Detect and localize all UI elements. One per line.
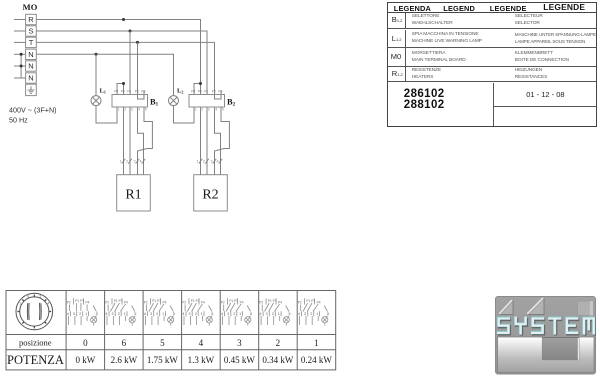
B2 bottom pin 2 stub [200, 107, 202, 110]
wire stub left of N2 [14, 65, 26, 67]
svg-text:P4: P4 [114, 89, 118, 93]
svg-text:3: 3 [237, 338, 242, 348]
svg-text:2: 2 [310, 312, 312, 316]
svg-text:5: 5 [222, 108, 224, 112]
node N2-jumper junction [20, 65, 23, 68]
position cell 3 contact labels [182, 298, 205, 304]
wire R jog to B2 pin1 [194, 84, 201, 95]
svg-text:P0: P0 [198, 89, 202, 93]
svg-text:posizione: posizione [19, 338, 52, 348]
position cell 1 terminal numbers [105, 311, 136, 316]
svg-text:2: 2 [195, 312, 197, 316]
B2 bottom pin 4 stub [214, 107, 216, 110]
svg-text:P1 P3: P1 P3 [152, 299, 161, 303]
svg-text:5: 5 [327, 312, 329, 316]
svg-text:P2: P2 [212, 89, 216, 93]
node R jog junction B2 [199, 82, 202, 85]
svg-text:2: 2 [201, 108, 203, 112]
wire R drop to B1 [123, 84, 125, 95]
terminal MO cell N3 [26, 73, 37, 83]
svg-text:1: 1 [19, 302, 21, 306]
B1 bottom pin 3 stub [129, 107, 131, 110]
logo square block [578, 301, 594, 316]
position cell 0 contact strokes [70, 303, 97, 312]
wire stub left of N1 [14, 53, 26, 55]
node T-B1 tap [136, 41, 139, 44]
wire tag 2 above R2 [203, 159, 209, 164]
terminal MO cell N2 [26, 61, 37, 71]
svg-text:3: 3 [112, 312, 114, 316]
wire tag 3 above R1 [134, 159, 140, 164]
svg-text:P1 P3: P1 P3 [114, 299, 123, 303]
B1 bottom pin 2 stub [123, 107, 125, 110]
svg-text:2: 2 [203, 159, 205, 163]
node R-B1 tap [122, 18, 125, 21]
wire stub left of R [14, 19, 26, 21]
svg-text:2: 2 [124, 108, 126, 112]
position cell 5 contact strokes [262, 303, 289, 312]
svg-text:R2: R2 [202, 188, 218, 203]
wire B1 pin5 to R1 [138, 110, 153, 175]
heater R1 [117, 175, 151, 211]
svg-text:4: 4 [199, 338, 204, 348]
legend row B1,2 selector [388, 13, 596, 30]
wire N drop to lamp L1 [95, 54, 97, 95]
terminal MO cell S [26, 26, 37, 36]
wire tag 2 above R1 [126, 159, 132, 164]
node S-B1 tap [129, 30, 132, 33]
B2 bottom pin 1 stub [193, 107, 195, 110]
position cell 5 lamp icon [283, 316, 289, 326]
svg-text:1: 1 [118, 108, 120, 112]
svg-text:2: 2 [276, 338, 281, 348]
wire S bus [36, 31, 207, 95]
svg-text:P2: P2 [67, 300, 71, 304]
wire B2 pin5 to R2 [215, 110, 230, 175]
svg-text:3: 3 [211, 159, 213, 163]
svg-text:4: 4 [144, 312, 146, 316]
B2 bottom pin 5 stub [220, 107, 222, 110]
svg-text:5: 5 [96, 312, 98, 316]
wire R drop to B2 [200, 84, 202, 95]
position cell 2 contact labels [144, 298, 167, 304]
position cell 0 terminal numbers [67, 311, 98, 316]
svg-text:N: N [28, 74, 33, 83]
position cell 3 terminal numbers [182, 311, 213, 316]
SYSTEM4 watermark logo [495, 296, 596, 375]
svg-text:3: 3 [304, 312, 306, 316]
svg-text:1.3 kW: 1.3 kW [188, 355, 215, 365]
logo SYSTEM lettering [497, 316, 595, 335]
terminal MO ground cell [26, 84, 37, 95]
logo triangle 2 [527, 298, 544, 315]
svg-text:1: 1 [197, 159, 199, 163]
wire B2 pin4 to R2 [215, 110, 221, 175]
selector knob symbol [16, 293, 53, 330]
svg-text:N: N [28, 62, 33, 71]
svg-text:1: 1 [314, 338, 319, 348]
svg-text:P4: P4 [86, 300, 90, 304]
svg-text:P2: P2 [135, 89, 139, 93]
wire tag 1 above R1 [120, 159, 126, 164]
position cell 0 lamp icon [91, 316, 97, 326]
position cell 5 contact labels [259, 298, 282, 304]
svg-text:4: 4 [260, 312, 262, 316]
svg-text:4: 4 [298, 312, 300, 316]
svg-text:P4: P4 [278, 300, 282, 304]
position table frame [6, 291, 336, 370]
svg-text:P4: P4 [201, 300, 205, 304]
svg-text:3: 3 [189, 312, 191, 316]
wire T drop to B1 [137, 42, 139, 94]
node R jog junction B1 [122, 82, 125, 85]
node N1-jumper junction [20, 53, 23, 56]
svg-text:3: 3 [227, 312, 229, 316]
svg-text:P1 P3: P1 P3 [306, 299, 315, 303]
position cell 0 contact labels [67, 298, 90, 304]
position cell 0 stems [69, 316, 88, 325]
svg-text:2.6 kW: 2.6 kW [111, 355, 138, 365]
svg-text:P1 P3: P1 P3 [75, 299, 84, 303]
position table column dividers [66, 291, 297, 370]
wire B2 pin2 to R2 [200, 110, 202, 175]
svg-text:P4: P4 [191, 89, 195, 93]
lamp L1 [91, 96, 101, 106]
svg-text:1: 1 [201, 312, 203, 316]
svg-text:5: 5 [173, 312, 175, 316]
svg-text:1: 1 [195, 108, 197, 112]
position cell 4 stems [223, 316, 242, 325]
position cell 5 terminal numbers [260, 311, 291, 316]
svg-text:3: 3 [266, 312, 268, 316]
position cell 2 lamp icon [168, 316, 174, 326]
svg-text:R: R [28, 15, 34, 24]
position cell 4 lamp icon [245, 316, 251, 326]
wire S drop to B1 [129, 31, 131, 95]
wire T drop to B2 [0, 0, 1, 1]
position cell 2 stems [146, 316, 165, 325]
wire tag 4 above R1 [140, 159, 146, 164]
legend header [388, 3, 596, 13]
svg-text:P1: P1 [127, 89, 131, 93]
svg-text:P1 P3: P1 P3 [268, 299, 277, 303]
B1 bottom pin 1 stub [116, 107, 118, 110]
svg-text:4: 4 [140, 159, 142, 163]
logo triangle 1 [499, 300, 513, 315]
node N-L1 tap [95, 53, 98, 56]
svg-text:1: 1 [120, 159, 122, 163]
selector switch B2 body [189, 95, 225, 108]
svg-text:1: 1 [85, 312, 87, 316]
wire R bus [36, 20, 200, 84]
svg-text:P2: P2 [259, 300, 263, 304]
legend part numbers cell [388, 83, 493, 126]
svg-text:2: 2 [156, 312, 158, 316]
svg-text:S: S [28, 27, 33, 36]
position cell 4 contact labels [221, 298, 244, 304]
position cell 2 contact strokes [147, 303, 174, 312]
svg-text:R1: R1 [125, 188, 141, 203]
position cell 3 stems [184, 316, 203, 325]
B2 top pin stubs [194, 91, 221, 95]
svg-text:P4: P4 [163, 300, 167, 304]
svg-text:0.24 kW: 0.24 kW [301, 355, 333, 365]
position cell 4 contact strokes [224, 303, 251, 312]
B1 bottom pin 4 stub [137, 107, 139, 110]
wire tag 3 above R2 [211, 159, 217, 164]
svg-text:P3: P3 [141, 89, 145, 93]
wire stub left of T [14, 41, 26, 43]
heater R2 [194, 175, 228, 211]
position cell 3 lamp icon [206, 316, 212, 326]
position cell 1 contact labels [105, 298, 128, 304]
svg-text:5: 5 [160, 338, 165, 348]
svg-text:L1: L1 [100, 88, 106, 95]
svg-text:1.75 kW: 1.75 kW [147, 355, 179, 365]
wire R jog to B1 pin1 [117, 84, 124, 95]
svg-text:6: 6 [27, 295, 29, 299]
svg-text:4: 4 [215, 108, 217, 112]
svg-text:MO: MO [23, 2, 38, 12]
svg-text:P4: P4 [124, 300, 128, 304]
wire N jumper vertical [20, 54, 22, 78]
B1 bottom pin 5 stub [143, 107, 145, 110]
svg-text:5: 5 [40, 295, 42, 299]
svg-text:P1 P3: P1 P3 [229, 299, 238, 303]
svg-text:P2: P2 [105, 300, 109, 304]
lamp L2 [169, 96, 179, 106]
svg-text:4: 4 [221, 312, 223, 316]
terminal MO cell T [26, 37, 37, 47]
wire tag 4 above R2 [217, 159, 223, 164]
position cell 1 lamp icon [129, 316, 135, 326]
svg-text:0 kW: 0 kW [76, 355, 96, 365]
logo background plate [496, 297, 596, 375]
svg-text:P2: P2 [144, 300, 148, 304]
svg-text:2: 2 [126, 159, 128, 163]
wire tag 1 above R2 [197, 159, 203, 164]
svg-text:P2: P2 [298, 300, 302, 304]
wire stub left of S [14, 30, 26, 32]
legend row M0 terminal board [388, 48, 596, 67]
svg-text:3: 3 [134, 159, 136, 163]
svg-text:5: 5 [211, 312, 213, 316]
svg-text:5: 5 [289, 312, 291, 316]
supply label 400V [9, 106, 57, 125]
terminal MO cell N1 [26, 49, 37, 59]
position cell 6 terminal numbers [298, 311, 329, 316]
svg-text:P4: P4 [317, 300, 321, 304]
position cell 6 contact strokes [301, 303, 328, 312]
svg-text:0: 0 [83, 338, 88, 348]
legend date cell [493, 83, 598, 126]
svg-text:2: 2 [233, 312, 235, 316]
logo bracket slab [498, 337, 594, 372]
svg-text:P1 P3: P1 P3 [191, 299, 200, 303]
svg-text:1: 1 [124, 312, 126, 316]
svg-text:P1: P1 [204, 89, 208, 93]
svg-text:P4: P4 [240, 300, 244, 304]
svg-text:B2: B2 [227, 97, 236, 108]
legend row R1,2 heaters [388, 67, 596, 82]
svg-text:3: 3 [150, 312, 152, 316]
legend table [387, 2, 597, 127]
logo bracket notch [542, 337, 579, 360]
svg-text:4: 4 [182, 312, 184, 316]
svg-text:L2: L2 [177, 88, 183, 95]
svg-text:5: 5 [134, 312, 136, 316]
position cell 6 lamp icon [322, 316, 328, 326]
svg-text:2: 2 [272, 312, 274, 316]
svg-text:50 Hz: 50 Hz [9, 116, 28, 125]
svg-text:3: 3 [208, 108, 210, 112]
position cell 1 stems [107, 316, 126, 325]
svg-text:P3: P3 [218, 89, 222, 93]
svg-text:1: 1 [239, 312, 241, 316]
svg-text:N: N [28, 50, 33, 59]
svg-text:P0: P0 [121, 89, 125, 93]
svg-text:2: 2 [79, 312, 81, 316]
svg-text:P2: P2 [182, 300, 186, 304]
position cell 3 contact strokes [185, 303, 212, 312]
svg-text:4: 4 [105, 312, 107, 316]
svg-text:B1: B1 [150, 97, 159, 108]
svg-text:400V ~ (3F+N): 400V ~ (3F+N) [9, 106, 57, 115]
svg-text:6: 6 [122, 338, 127, 348]
wire N drop to lamp L2 [0, 0, 1, 1]
selector switch B1 body [112, 95, 148, 108]
wire stub left of N3 [14, 77, 26, 79]
wire B1 pin2 to R1 [123, 110, 125, 175]
wire T bus [36, 42, 214, 94]
B2 bottom pin 3 stub [206, 107, 208, 110]
svg-text:0.34 kW: 0.34 kW [262, 355, 294, 365]
svg-text:4: 4 [67, 312, 69, 316]
wire B1 pin3 to R1 [129, 110, 131, 175]
svg-text:P2: P2 [221, 300, 225, 304]
position cell 6 contact labels [298, 298, 321, 304]
position cell 5 stems [261, 316, 280, 325]
svg-text:5: 5 [250, 312, 252, 316]
wire lamp L1 to B1 pin1 [96, 106, 117, 123]
svg-text:3: 3 [131, 108, 133, 112]
svg-text:0.45 kW: 0.45 kW [224, 355, 256, 365]
B2 internal bridge [215, 95, 222, 100]
svg-text:1: 1 [316, 312, 318, 316]
svg-text:POTENZA: POTENZA [7, 353, 64, 367]
svg-text:5: 5 [145, 108, 147, 112]
svg-text:4: 4 [47, 302, 49, 306]
wire lamp L2 to B2 pin1 [174, 106, 195, 123]
B1 internal bridge [138, 95, 145, 100]
terminal MO cell R [26, 14, 37, 24]
svg-text:T: T [29, 38, 34, 47]
svg-text:2: 2 [118, 312, 120, 316]
wire N bus [36, 54, 173, 95]
wire B2 pin3 to R2 [206, 110, 208, 175]
wire B1 pin4 to R1 [138, 110, 144, 175]
position cell 2 terminal numbers [144, 311, 175, 316]
wire S drop to B2 [0, 0, 1, 1]
position cell 4 terminal numbers [221, 311, 252, 316]
position cell 1 contact strokes [108, 303, 135, 312]
position cell 6 stems [300, 316, 319, 325]
position table row dividers [6, 335, 336, 350]
B1 top pin stubs [117, 91, 144, 95]
svg-text:4: 4 [138, 108, 140, 112]
svg-text:1: 1 [278, 312, 280, 316]
svg-text:1: 1 [162, 312, 164, 316]
svg-text:3: 3 [73, 312, 75, 316]
legend row L1,2 lamp [388, 30, 596, 49]
svg-text:4: 4 [217, 159, 219, 163]
